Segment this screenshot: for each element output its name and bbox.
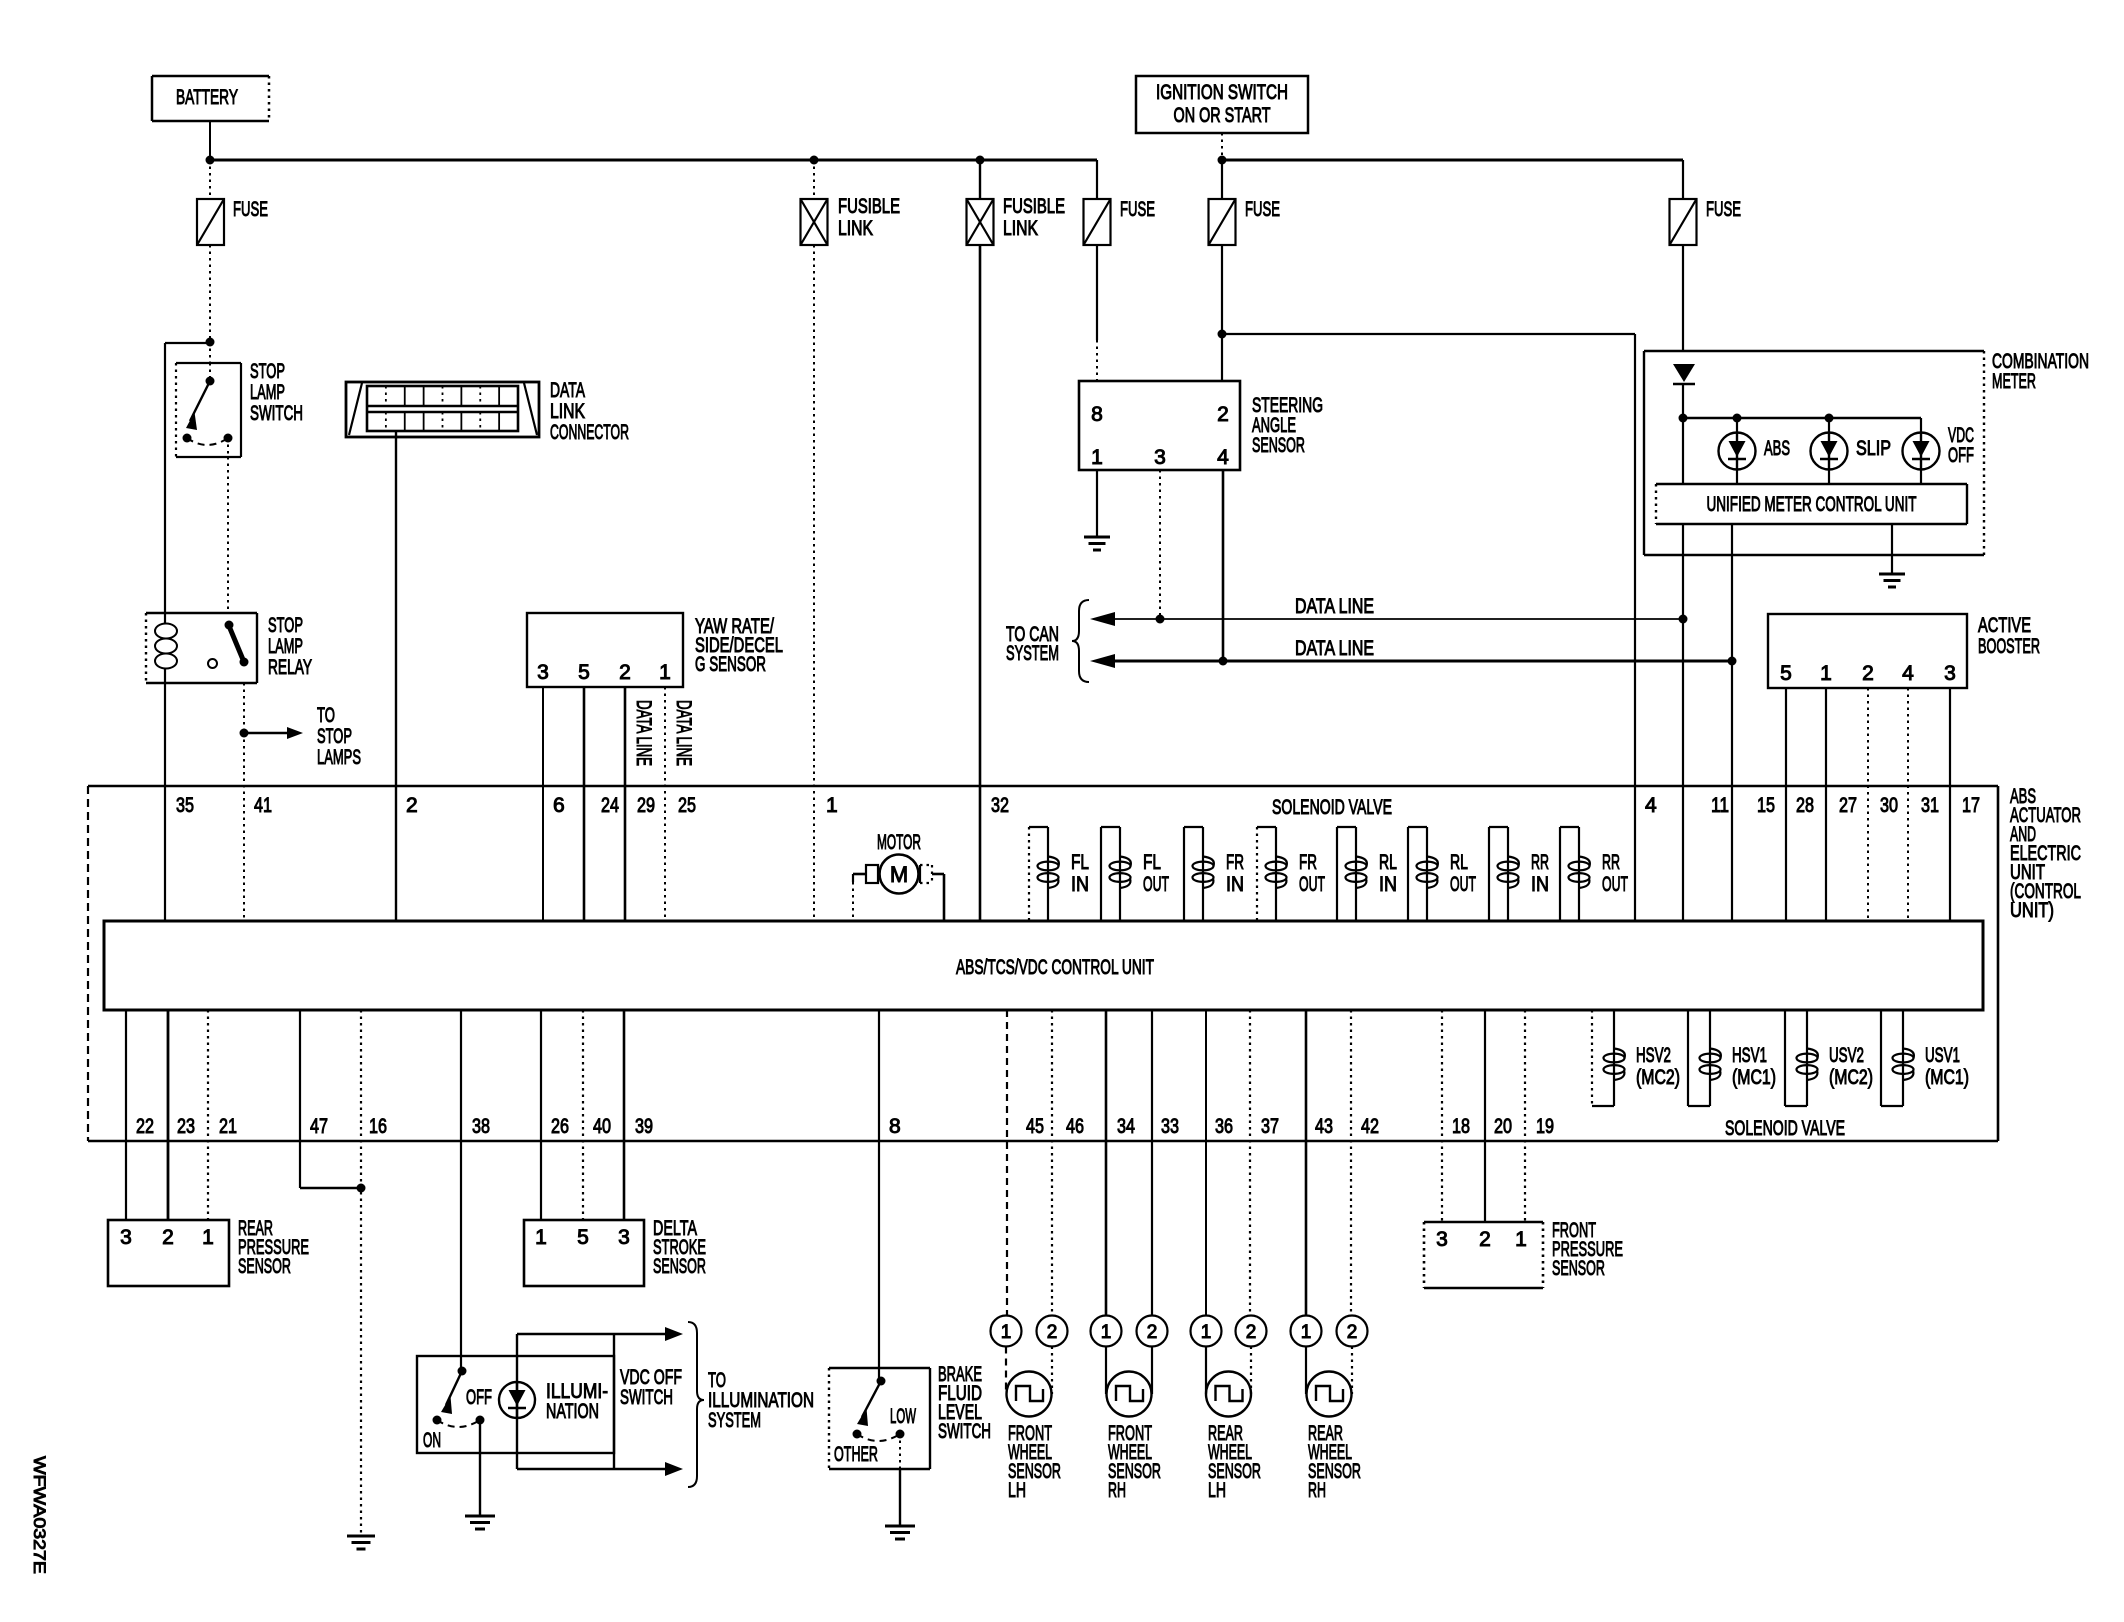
svg-text:IN: IN (1071, 873, 1089, 896)
svg-text:IN: IN (1531, 873, 1549, 896)
svg-text:ABS/TCS/VDC CONTROL UNIT: ABS/TCS/VDC CONTROL UNIT (956, 956, 1154, 979)
svg-text:IN: IN (1226, 873, 1244, 896)
svg-text:8: 8 (1091, 403, 1103, 426)
svg-text:SOLENOID VALVE: SOLENOID VALVE (1272, 796, 1392, 819)
svg-text:NATION: NATION (546, 1400, 599, 1423)
svg-text:1: 1 (826, 794, 838, 817)
svg-text:3: 3 (1944, 662, 1956, 685)
svg-text:2: 2 (1246, 1322, 1257, 1343)
svg-text:LINK: LINK (838, 217, 873, 240)
svg-text:6: 6 (553, 794, 565, 817)
svg-text:15: 15 (1757, 794, 1775, 817)
svg-text:SENSOR: SENSOR (238, 1255, 291, 1278)
svg-text:MOTOR: MOTOR (877, 831, 921, 854)
svg-text:23: 23 (177, 1115, 195, 1138)
svg-text:28: 28 (1796, 794, 1814, 817)
svg-text:4: 4 (1217, 446, 1229, 469)
svg-text:8: 8 (889, 1115, 901, 1138)
svg-text:DATA LINE: DATA LINE (672, 700, 695, 766)
svg-text:SENSOR: SENSOR (1252, 434, 1305, 457)
svg-text:2: 2 (162, 1226, 174, 1249)
svg-text:OFF: OFF (466, 1386, 492, 1409)
svg-text:5: 5 (578, 661, 590, 684)
svg-text:RL: RL (1379, 851, 1397, 874)
svg-text:FR: FR (1226, 851, 1244, 874)
svg-text:ABS: ABS (1764, 437, 1790, 460)
svg-text:25: 25 (678, 794, 696, 817)
svg-text:LAMP: LAMP (250, 381, 285, 404)
svg-text:UNIFIED METER CONTROL UNIT: UNIFIED METER CONTROL UNIT (1707, 493, 1917, 516)
svg-text:TO: TO (317, 704, 335, 727)
svg-text:1: 1 (1820, 662, 1832, 685)
svg-text:19: 19 (1536, 1115, 1554, 1138)
svg-text:34: 34 (1117, 1115, 1135, 1138)
svg-text:3: 3 (618, 1226, 630, 1249)
svg-text:2: 2 (406, 794, 418, 817)
svg-text:5: 5 (1780, 662, 1792, 685)
svg-text:UNIT): UNIT) (2010, 899, 2054, 922)
svg-text:STOP: STOP (250, 360, 285, 383)
svg-text:LH: LH (1008, 1479, 1026, 1502)
svg-text:(MC2): (MC2) (1636, 1066, 1680, 1089)
svg-text:RH: RH (1108, 1479, 1126, 1502)
svg-text:21: 21 (219, 1115, 237, 1138)
svg-text:18: 18 (1452, 1115, 1470, 1138)
svg-text:33: 33 (1161, 1115, 1179, 1138)
svg-text:OUT: OUT (1450, 873, 1476, 896)
svg-text:HSV2: HSV2 (1636, 1044, 1671, 1067)
svg-text:SENSOR: SENSOR (653, 1255, 706, 1278)
svg-text:2: 2 (1479, 1228, 1491, 1251)
svg-text:5: 5 (577, 1226, 589, 1249)
svg-text:IN: IN (1379, 873, 1397, 896)
svg-text:STOP: STOP (268, 614, 303, 637)
svg-text:3: 3 (537, 661, 549, 684)
svg-text:FUSE: FUSE (1245, 198, 1280, 221)
svg-text:40: 40 (593, 1115, 611, 1138)
svg-text:1: 1 (1301, 1322, 1312, 1343)
svg-text:17: 17 (1962, 794, 1980, 817)
svg-text:SWITCH: SWITCH (938, 1420, 991, 1443)
svg-text:FL: FL (1071, 851, 1089, 874)
svg-text:36: 36 (1215, 1115, 1233, 1138)
svg-text:DATA: DATA (550, 379, 585, 402)
svg-text:41: 41 (254, 794, 272, 817)
svg-text:SOLENOID VALVE: SOLENOID VALVE (1725, 1117, 1845, 1140)
svg-text:4: 4 (1902, 662, 1914, 685)
svg-text:SYSTEM: SYSTEM (1006, 642, 1059, 665)
svg-text:USV2: USV2 (1829, 1044, 1864, 1067)
svg-text:FUSE: FUSE (1120, 198, 1155, 221)
svg-text:2: 2 (619, 661, 631, 684)
svg-text:31: 31 (1921, 794, 1939, 817)
svg-text:11: 11 (1711, 794, 1729, 817)
svg-text:1: 1 (1001, 1322, 1012, 1343)
svg-text:ACTIVE: ACTIVE (1978, 614, 2031, 637)
svg-text:RR: RR (1531, 851, 1549, 874)
svg-text:(MC2): (MC2) (1829, 1066, 1873, 1089)
svg-text:2: 2 (1217, 403, 1229, 426)
svg-text:SENSOR: SENSOR (1552, 1257, 1605, 1280)
svg-text:OFF: OFF (1948, 444, 1974, 467)
svg-text:1: 1 (1091, 446, 1103, 469)
svg-text:2: 2 (1147, 1322, 1158, 1343)
svg-text:OUT: OUT (1299, 873, 1325, 896)
svg-text:1: 1 (202, 1226, 214, 1249)
svg-text:BATTERY: BATTERY (176, 86, 238, 109)
svg-text:DATA LINE: DATA LINE (1295, 595, 1374, 618)
svg-text:RELAY: RELAY (268, 656, 312, 679)
svg-text:47: 47 (310, 1115, 328, 1138)
svg-text:IGNITION SWITCH: IGNITION SWITCH (1156, 81, 1288, 104)
svg-text:M: M (890, 862, 908, 887)
svg-text:30: 30 (1880, 794, 1898, 817)
svg-text:27: 27 (1839, 794, 1857, 817)
svg-text:39: 39 (635, 1115, 653, 1138)
svg-text:SWITCH: SWITCH (250, 402, 303, 425)
svg-text:1: 1 (659, 661, 671, 684)
svg-text:(MC1): (MC1) (1732, 1066, 1776, 1089)
svg-text:37: 37 (1261, 1115, 1279, 1138)
svg-text:FUSIBLE: FUSIBLE (838, 195, 900, 218)
svg-text:42: 42 (1361, 1115, 1379, 1138)
svg-text:ON: ON (423, 1429, 441, 1452)
svg-text:SWITCH: SWITCH (620, 1386, 673, 1409)
svg-text:FL: FL (1143, 851, 1161, 874)
svg-text:35: 35 (176, 794, 194, 817)
svg-text:CONNECTOR: CONNECTOR (550, 421, 629, 444)
svg-text:LOW: LOW (890, 1405, 916, 1428)
svg-text:3: 3 (1436, 1228, 1448, 1251)
svg-text:1: 1 (1515, 1228, 1527, 1251)
svg-text:16: 16 (369, 1115, 387, 1138)
svg-text:DATA LINE: DATA LINE (632, 700, 655, 766)
svg-text:BOOSTER: BOOSTER (1978, 635, 2040, 658)
svg-text:HSV1: HSV1 (1732, 1044, 1767, 1067)
svg-text:2: 2 (1347, 1322, 1358, 1343)
svg-text:FUSE: FUSE (233, 198, 268, 221)
svg-text:LINK: LINK (550, 400, 585, 423)
svg-text:OUT: OUT (1602, 873, 1628, 896)
svg-text:29: 29 (637, 794, 655, 817)
svg-text:METER: METER (1992, 370, 2036, 393)
svg-text:46: 46 (1066, 1115, 1084, 1138)
svg-text:32: 32 (991, 794, 1009, 817)
svg-text:43: 43 (1315, 1115, 1333, 1138)
svg-text:22: 22 (136, 1115, 154, 1138)
svg-text:ON OR START: ON OR START (1174, 104, 1271, 127)
svg-text:1: 1 (1201, 1322, 1212, 1343)
svg-text:2: 2 (1047, 1322, 1058, 1343)
svg-text:1: 1 (1101, 1322, 1112, 1343)
svg-text:24: 24 (601, 794, 619, 817)
svg-text:LH: LH (1208, 1479, 1226, 1502)
svg-text:2: 2 (1862, 662, 1874, 685)
svg-text:USV1: USV1 (1925, 1044, 1960, 1067)
svg-text:(MC1): (MC1) (1925, 1066, 1969, 1089)
svg-text:38: 38 (472, 1115, 490, 1138)
svg-text:RH: RH (1308, 1479, 1326, 1502)
svg-text:RL: RL (1450, 851, 1468, 874)
svg-text:OUT: OUT (1143, 873, 1169, 896)
svg-text:FUSE: FUSE (1706, 198, 1741, 221)
svg-text:OTHER: OTHER (834, 1443, 878, 1466)
svg-text:SYSTEM: SYSTEM (708, 1409, 761, 1432)
svg-text:SLIP: SLIP (1856, 437, 1891, 460)
svg-text:WFWA0327E: WFWA0327E (30, 1456, 49, 1574)
svg-text:3: 3 (120, 1226, 132, 1249)
svg-text:LINK: LINK (1003, 217, 1038, 240)
svg-text:LAMPS: LAMPS (317, 746, 361, 769)
svg-text:DATA LINE: DATA LINE (1295, 637, 1374, 660)
svg-text:G SENSOR: G SENSOR (695, 653, 766, 676)
svg-text:RR: RR (1602, 851, 1620, 874)
svg-text:FUSIBLE: FUSIBLE (1003, 195, 1065, 218)
svg-text:LAMP: LAMP (268, 635, 303, 658)
svg-text:STOP: STOP (317, 725, 352, 748)
svg-text:3: 3 (1154, 446, 1166, 469)
svg-text:FR: FR (1299, 851, 1317, 874)
svg-text:20: 20 (1494, 1115, 1512, 1138)
svg-text:1: 1 (535, 1226, 547, 1249)
svg-text:45: 45 (1026, 1115, 1044, 1138)
svg-text:4: 4 (1645, 794, 1657, 817)
svg-text:26: 26 (551, 1115, 569, 1138)
